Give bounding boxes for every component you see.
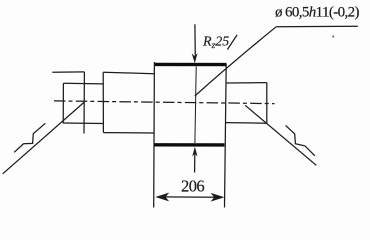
svg-text:ø 60,5h11(-0,2): ø 60,5h11(-0,2) xyxy=(275,4,360,20)
svg-text:206: 206 xyxy=(181,177,204,196)
svg-text:Rz25: Rz25 xyxy=(202,35,229,51)
